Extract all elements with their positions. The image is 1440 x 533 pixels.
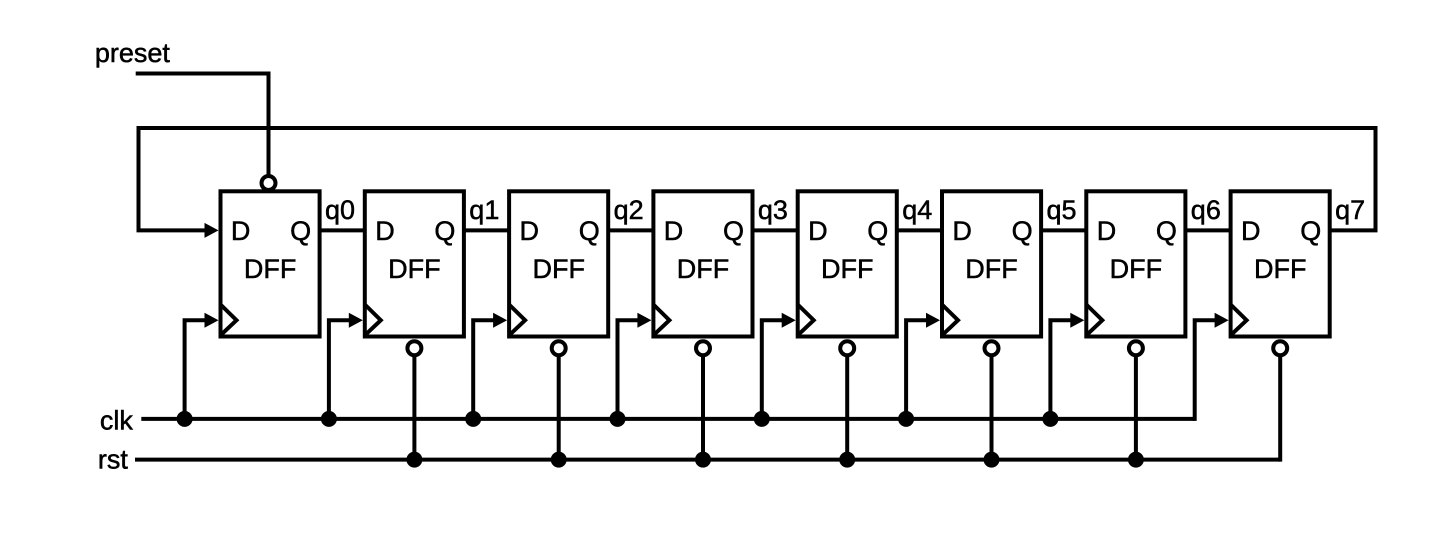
flip-flop U8: [1231, 191, 1330, 336]
wire clk branch U3: [473, 320, 497, 419]
arrow into clock of U6: [926, 313, 940, 328]
svg-text:DFF: DFF: [244, 254, 296, 284]
svg-text:rst: rst: [98, 445, 128, 475]
wire clk bus: [141, 417, 1194, 421]
svg-text:Q: Q: [723, 216, 744, 246]
svg-text:Q: Q: [579, 216, 600, 246]
svg-text:DFF: DFF: [1110, 254, 1162, 284]
svg-text:Q: Q: [1156, 216, 1177, 246]
wire clk branch U5: [762, 320, 786, 419]
junction clk-U3: [465, 411, 481, 427]
svg-text:q1: q1: [469, 195, 499, 225]
wire clk branch U2: [329, 320, 353, 419]
wire rst branch U3: [557, 349, 561, 460]
junction rst-U4: [695, 452, 711, 468]
svg-text:D: D: [808, 216, 828, 246]
wire rst branch U5: [845, 349, 849, 460]
wire rst branch U8: [1278, 349, 1282, 462]
wire rst branch U6: [990, 349, 994, 460]
arrow into clock of U1: [205, 313, 219, 328]
reset bubble U8: [1273, 341, 1287, 355]
junction clk-U7: [1042, 411, 1058, 427]
svg-text:D: D: [664, 216, 684, 246]
arrow into clock of U4: [637, 313, 651, 328]
wire clk branch U1: [185, 320, 209, 419]
wire q0: [320, 228, 365, 232]
reset bubble U5: [840, 341, 854, 355]
preset bubble U1: [262, 176, 276, 190]
flip-flop U3: [509, 191, 608, 336]
reset bubble U2: [407, 341, 421, 355]
flip-flop U4: [653, 191, 752, 336]
junction rst-U2: [406, 452, 422, 468]
junction clk-U6: [898, 411, 914, 427]
svg-text:Q: Q: [1012, 216, 1033, 246]
junction clk-U1: [177, 411, 193, 427]
flip-flop U7: [1086, 191, 1185, 336]
svg-text:DFF: DFF: [677, 254, 729, 284]
arrow into clock of U7: [1070, 313, 1084, 328]
reset bubble U3: [552, 341, 566, 355]
wire q7 feedback: [139, 128, 1376, 230]
junction clk-U5: [754, 411, 770, 427]
arrow into clock of U5: [782, 313, 796, 328]
wire q4: [897, 228, 942, 232]
arrow into D of U1: [205, 223, 219, 238]
wire rst branch U4: [701, 349, 705, 460]
wire preset: [136, 74, 269, 177]
svg-text:D: D: [1097, 216, 1117, 246]
wire rst branch U7: [1134, 349, 1138, 460]
junction rst-U7: [1128, 452, 1144, 468]
svg-text:DFF: DFF: [821, 254, 873, 284]
flip-flop U5: [798, 191, 897, 336]
arrow into clock of U8: [1215, 313, 1229, 328]
wire rst bus: [135, 458, 1280, 462]
junction rst-U3: [551, 452, 567, 468]
svg-text:q3: q3: [758, 195, 788, 225]
svg-text:D: D: [375, 216, 395, 246]
svg-text:preset: preset: [95, 38, 171, 68]
junction clk-U4: [610, 411, 626, 427]
wire rst branch U2: [412, 349, 416, 460]
wire clk branch U7: [1050, 320, 1074, 419]
junction rst-U6: [984, 452, 1000, 468]
wire q3: [753, 228, 798, 232]
wire clk branch U8: [1195, 320, 1219, 421]
arrow into clock of U3: [493, 313, 507, 328]
svg-text:Q: Q: [1300, 216, 1321, 246]
svg-text:DFF: DFF: [1254, 254, 1306, 284]
svg-text:D: D: [231, 216, 251, 246]
svg-text:clk: clk: [100, 406, 133, 436]
svg-text:Q: Q: [434, 216, 455, 246]
wire q6: [1185, 228, 1230, 232]
reset bubble U7: [1129, 341, 1143, 355]
svg-text:q4: q4: [902, 195, 932, 225]
svg-text:Q: Q: [290, 216, 311, 246]
svg-text:Q: Q: [867, 216, 888, 246]
flip-flop U6: [942, 191, 1041, 336]
svg-text:D: D: [1241, 216, 1261, 246]
reset bubble U6: [985, 341, 999, 355]
svg-text:DFF: DFF: [388, 254, 440, 284]
flip-flop U1: [221, 191, 320, 336]
junction clk-U2: [321, 411, 337, 427]
svg-text:D: D: [952, 216, 972, 246]
svg-text:q7: q7: [1335, 195, 1365, 225]
wire clk branch U6: [906, 320, 930, 419]
svg-text:q0: q0: [325, 195, 355, 225]
svg-text:q5: q5: [1047, 195, 1077, 225]
wire q2: [608, 228, 653, 232]
svg-text:q2: q2: [614, 195, 644, 225]
flip-flop U2: [365, 191, 464, 336]
arrow into clock of U2: [349, 313, 363, 328]
svg-text:DFF: DFF: [532, 254, 584, 284]
svg-text:D: D: [520, 216, 540, 246]
wire q1: [464, 228, 509, 232]
reset bubble U4: [696, 341, 710, 355]
svg-text:q6: q6: [1191, 195, 1221, 225]
svg-text:DFF: DFF: [965, 254, 1017, 284]
junction rst-U5: [839, 452, 855, 468]
wire q5: [1041, 228, 1086, 232]
wire clk branch U4: [618, 320, 642, 419]
